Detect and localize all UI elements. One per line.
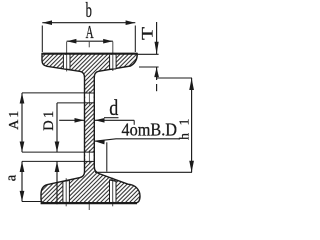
svg-text:b: b [86,0,92,22]
dimension d left line [59,118,84,123]
top flange left hole centerline [66,42,68,72]
bottom flange bottom face (thick) [41,202,137,204]
bottom flange left hole [63,180,70,202]
svg-text:A: A [86,22,94,42]
bottom flange right hole [110,180,117,203]
web lower hole [85,150,95,163]
dimension b line [42,20,135,25]
svg-text:1: 1 [7,111,22,118]
left extension line from web lower hole top [22,151,85,153]
top flange right hole [110,55,117,70]
T top extension line [138,53,159,55]
bottom flange left hole centerline [65,178,67,206]
T bottom extension line [139,66,159,68]
dimension h1 vertical line [189,78,194,172]
top flange right hole centerline [112,42,114,71]
dimension b left extension line [41,26,43,53]
svg-text:d: d [109,95,118,120]
h1 bottom extension line [95,171,192,173]
dimension a line [20,161,25,201]
dimension A1 line [20,93,25,152]
web upper hole [85,91,95,104]
svg-text:T: T [140,27,157,40]
top flange left hole [63,55,70,70]
svg-text:a: a [4,174,20,181]
D1 extension corner line [57,102,85,104]
beam axis centerline bottom tick [88,201,90,210]
bottom flange right hole centerline [112,178,114,207]
svg-text:1: 1 [178,119,193,126]
h1 top connector line [157,77,192,79]
svg-text:A: A [7,119,22,130]
short vertical extension near web [106,142,108,171]
left extension line from web upper hole top [22,92,85,94]
svg-text:1: 1 [41,111,57,118]
left extension line from web lower hole bottom [22,160,85,162]
beam I-section outline (hatched) [41,54,140,203]
dimension D1 line [55,103,60,204]
dimension T [154,22,159,91]
dimension b right extension line [134,26,136,53]
bottom extension line [22,201,42,203]
dimension d right line [95,118,134,125]
svg-text:h: h [178,133,193,140]
top flange top face (thick) [42,53,138,55]
dimension A line [67,39,113,44]
svg-text:4omB.D: 4omB.D [122,120,178,140]
svg-text:D: D [41,120,57,130]
beam axis centerline top tick [88,42,90,48]
label d underline [104,117,119,119]
leader 4omB.D [95,139,179,145]
